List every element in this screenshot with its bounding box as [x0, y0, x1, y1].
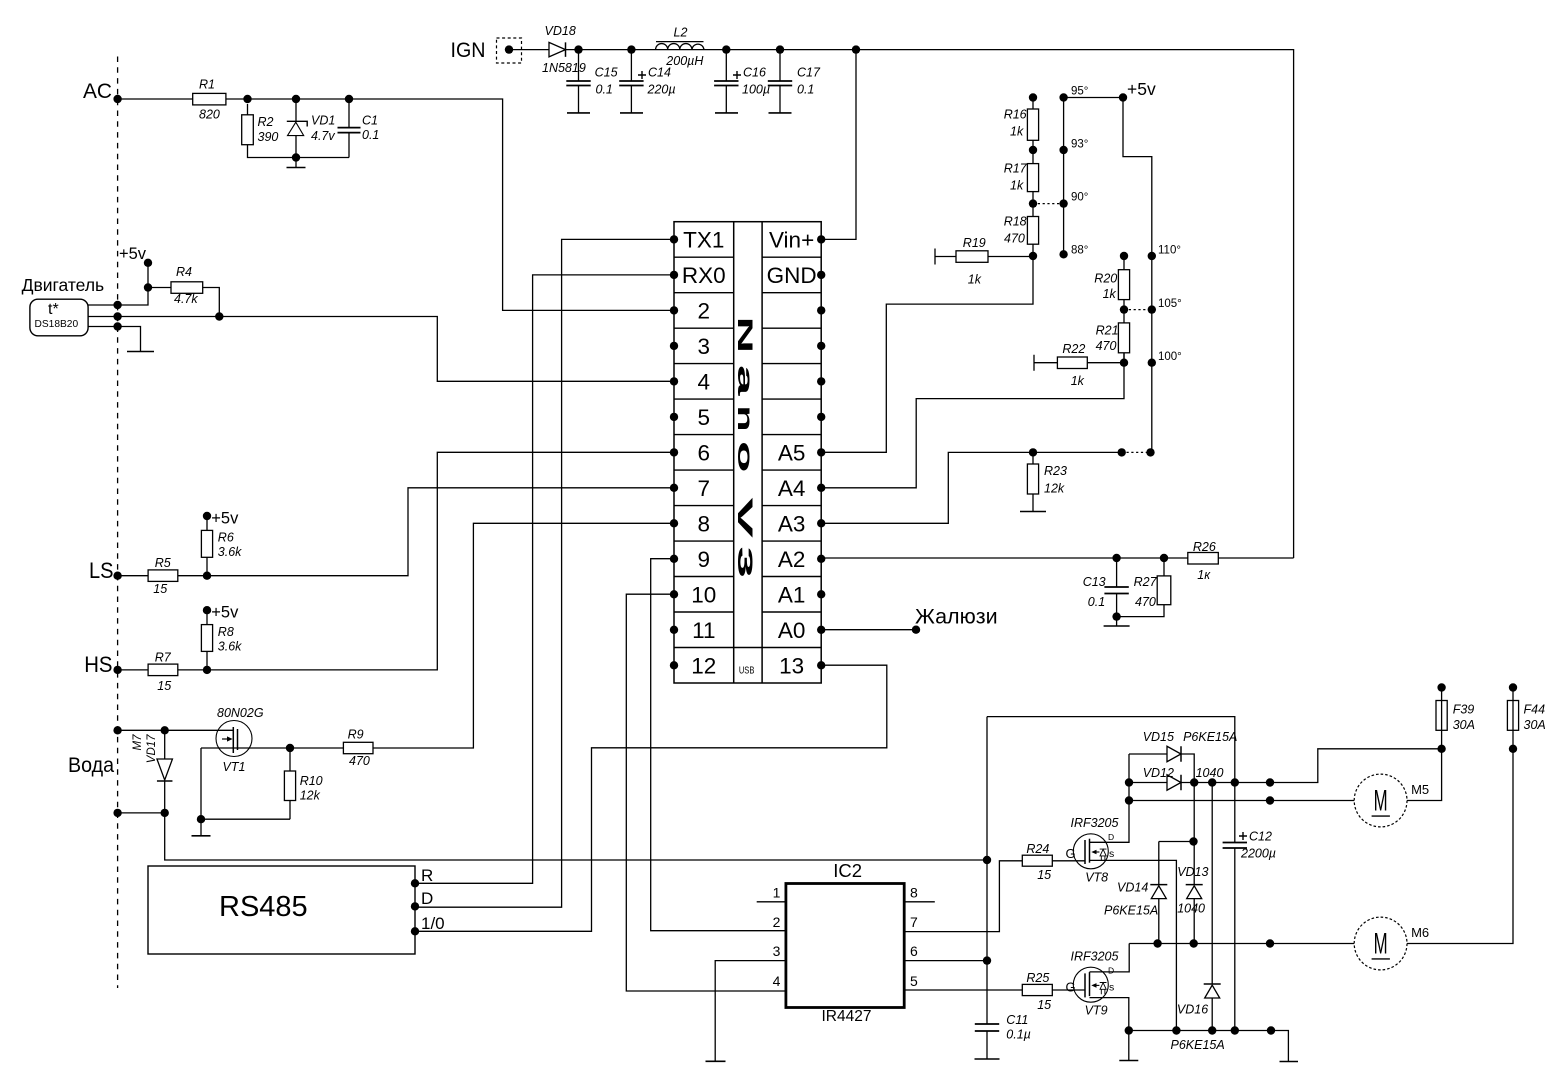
svg-text:R27: R27	[1134, 575, 1158, 589]
svg-text:1k: 1k	[1071, 374, 1085, 388]
svg-text:VT9: VT9	[1085, 1004, 1108, 1018]
svg-text:P6KE15A: P6KE15A	[1183, 730, 1237, 744]
svg-text:C17: C17	[797, 66, 821, 80]
svg-text:LS: LS	[89, 558, 114, 583]
wire TX1 to RS485 D	[415, 239, 674, 907]
wire Voda bottom	[118, 812, 165, 814]
resistor R21	[1118, 323, 1129, 353]
node 100	[1148, 359, 1156, 367]
svg-text:3.6k: 3.6k	[218, 545, 242, 559]
wire VD17 stem	[164, 730, 166, 813]
node R17 R18	[1029, 199, 1037, 207]
svg-text:A4: A4	[778, 476, 806, 501]
svg-text:Жалюзи: Жалюзи	[915, 605, 998, 629]
wire R24 to VT8 gate	[1052, 860, 1085, 862]
svg-text:470: 470	[1135, 595, 1156, 609]
svg-text:4.7v: 4.7v	[311, 129, 335, 143]
svg-text:GND: GND	[767, 263, 817, 288]
fuse F39	[1441, 688, 1443, 701]
svg-text:1040: 1040	[1177, 902, 1205, 916]
wire IC2 pin 3 to ground	[715, 961, 786, 1061]
svg-text:105°: 105°	[1158, 298, 1182, 310]
svg-text:A1: A1	[778, 582, 806, 607]
node R27 top	[1160, 554, 1168, 562]
svg-text:A0: A0	[778, 618, 806, 643]
wire AC line to Nano pin 2	[118, 99, 674, 310]
wire pin 13 to RS485 1/0	[415, 665, 887, 931]
svg-text:C1: C1	[362, 114, 378, 128]
svg-text:R9: R9	[348, 728, 364, 742]
svg-text:C15: C15	[595, 66, 618, 80]
capacitor C17	[768, 81, 792, 86]
svg-text:3.6k: 3.6k	[218, 640, 242, 654]
svg-text:G: G	[1066, 979, 1076, 994]
wire VD1 stem	[295, 99, 297, 158]
svg-text:AC: AC	[83, 79, 112, 103]
svg-text:M: M	[1374, 785, 1388, 818]
node 95	[1059, 93, 1067, 101]
wire A4 net	[821, 353, 1124, 488]
svg-text:R19: R19	[963, 236, 986, 250]
node bus sensor data	[113, 312, 121, 320]
wire VT9 drain	[1090, 944, 1130, 972]
capacitor C1	[338, 128, 361, 133]
svg-text:R20: R20	[1094, 272, 1117, 286]
wire IGN to VD18	[509, 49, 549, 51]
capacitor C14	[619, 81, 643, 86]
diode VD13	[1186, 884, 1203, 886]
capacitor C16	[714, 81, 738, 86]
wire Voda top to VT1 gate	[118, 729, 234, 731]
ground C13	[1116, 617, 1118, 626]
svg-text:R17: R17	[1004, 162, 1028, 176]
resistor R20	[1118, 270, 1129, 300]
resistor R23	[1027, 464, 1038, 494]
wire C12 stem	[1234, 783, 1236, 1031]
dashed bus line	[117, 57, 119, 989]
node vcc rail	[983, 856, 991, 864]
ground IC2 pin3	[706, 1060, 726, 1062]
node Zhaluzi	[912, 626, 920, 634]
resistor R1	[193, 93, 226, 105]
svg-text:9: 9	[698, 547, 711, 572]
svg-text:F44: F44	[1524, 703, 1546, 717]
svg-text:0.1: 0.1	[362, 128, 379, 142]
diode VD12	[1167, 775, 1181, 791]
svg-text:8: 8	[910, 885, 918, 901]
svg-text:1к: 1к	[1197, 568, 1211, 582]
capacitor C13	[1104, 587, 1128, 594]
node Voda bottom bus	[113, 809, 121, 817]
svg-text:R16: R16	[1004, 108, 1027, 122]
node RS485 IO	[411, 927, 419, 935]
svg-text:110°: 110°	[1158, 245, 1181, 257]
node C14 top	[627, 45, 635, 53]
resistor R19	[935, 249, 1033, 265]
svg-text:15: 15	[1037, 868, 1051, 882]
wire sensor gnd pin	[88, 327, 141, 352]
diode VD17	[157, 759, 173, 780]
svg-text:VD1: VD1	[311, 114, 335, 128]
node 88	[1059, 250, 1067, 258]
node R4 left	[144, 283, 152, 291]
node VD17 top	[161, 726, 169, 734]
svg-text:15: 15	[1037, 998, 1051, 1012]
resistor R22	[1034, 355, 1124, 371]
temperature sensor DS18B20	[30, 299, 88, 336]
svg-text:470: 470	[349, 754, 370, 768]
wire sensor data to Nano pin 4	[88, 317, 674, 382]
svg-text:IGN: IGN	[451, 38, 486, 62]
svg-text:R25: R25	[1026, 971, 1049, 985]
svg-text:2: 2	[698, 298, 711, 323]
node R16 top	[1029, 93, 1037, 101]
svg-text:R4: R4	[176, 265, 192, 279]
node C13 top	[1112, 554, 1120, 562]
node motor plus terminal	[1266, 778, 1274, 786]
node F39 bottom	[1437, 745, 1445, 753]
node R18 R19 A5	[1029, 252, 1037, 260]
node M6 terminal	[1266, 939, 1274, 947]
wire R2 bottom	[248, 104, 350, 158]
node 90	[1059, 199, 1067, 207]
svg-text:11: 11	[692, 618, 715, 643]
svg-text:RX0: RX0	[682, 263, 726, 288]
node VT8 drain top	[1125, 778, 1133, 786]
svg-text:13: 13	[779, 653, 804, 678]
node +5v R8	[203, 606, 211, 614]
wire Vin+ to rail	[821, 50, 856, 240]
wire R10 stem	[201, 748, 290, 819]
node R7 R8 junction	[203, 666, 211, 674]
svg-text:1/0: 1/0	[421, 914, 445, 933]
wire C17 stem	[779, 50, 781, 113]
ground VT1	[200, 819, 202, 836]
svg-text:10: 10	[691, 582, 716, 607]
svg-text:M5: M5	[1411, 782, 1429, 797]
node 110	[1148, 252, 1156, 260]
node VD1 top	[292, 95, 300, 103]
node C12 col top	[1231, 778, 1239, 786]
svg-text:2200µ: 2200µ	[1240, 847, 1276, 861]
transistor VT1 80N02G	[216, 721, 252, 757]
svg-text:3: 3	[773, 943, 781, 959]
node AC	[113, 95, 121, 103]
svg-text:s: s	[1109, 848, 1114, 860]
svg-text:5: 5	[910, 973, 918, 989]
svg-text:R21: R21	[1096, 324, 1119, 338]
wire 95 to +5v	[1064, 97, 1123, 99]
node +5v sensor	[144, 259, 152, 267]
node R5 R6 junction	[203, 572, 211, 580]
motor M5	[1354, 774, 1407, 827]
svg-text:5: 5	[698, 405, 711, 430]
svg-text:220µ: 220µ	[647, 83, 676, 97]
svg-text:R23: R23	[1044, 464, 1067, 478]
diode VD16	[1204, 983, 1221, 985]
svg-text:1040: 1040	[1196, 766, 1224, 780]
svg-text:+5v: +5v	[1127, 79, 1156, 99]
svg-text:4.7k: 4.7k	[174, 292, 198, 306]
svg-text:15: 15	[157, 679, 171, 693]
wire +5v to right ladder	[1123, 98, 1152, 453]
resistor R25	[1022, 984, 1052, 995]
svg-text:R: R	[421, 866, 433, 885]
node VD17 bottom	[161, 809, 169, 817]
wire VT1 source line R9	[201, 523, 674, 748]
resistor R16	[1027, 109, 1038, 140]
capacitor C11	[975, 1024, 999, 1031]
node R23 top	[1029, 448, 1037, 456]
wire R16 chain	[1032, 98, 1034, 217]
svg-text:R1: R1	[199, 78, 215, 92]
resistor R4	[148, 288, 219, 317]
ground VD1	[295, 158, 297, 168]
svg-text:R5: R5	[155, 556, 171, 570]
svg-text:R26: R26	[1193, 540, 1216, 554]
wire A3 net	[821, 452, 1121, 523]
svg-text:R8: R8	[218, 625, 234, 639]
wire Voda to gate-drive rail	[165, 813, 987, 860]
svg-text:1k: 1k	[1010, 179, 1024, 193]
resistor R5	[148, 570, 178, 582]
resistor R10	[284, 771, 295, 801]
svg-text:IR4427: IR4427	[822, 1008, 872, 1025]
svg-text:R2: R2	[258, 115, 274, 129]
svg-text:Двигатель: Двигатель	[22, 275, 105, 295]
node LS	[113, 572, 121, 580]
wire LS to Nano pin 7	[118, 488, 674, 576]
ground C15	[567, 112, 590, 114]
wire R25 to VT9 gate	[1052, 989, 1085, 991]
svg-text:390: 390	[258, 130, 279, 144]
wire HS to Nano pin 6	[118, 452, 674, 670]
node gnd VT8	[1172, 1026, 1180, 1034]
svg-text:Vin+: Vin+	[769, 227, 814, 252]
node VT1 gnd junction	[197, 815, 205, 823]
svg-text:VD15: VD15	[1143, 730, 1174, 744]
resistor R8	[201, 625, 212, 652]
svg-text:P6KE15A: P6KE15A	[1171, 1038, 1225, 1052]
svg-text:A5: A5	[778, 440, 806, 465]
node R20 R21	[1120, 305, 1128, 313]
wire A3 dotted link	[1122, 451, 1151, 453]
svg-text:RS485: RS485	[219, 891, 308, 923]
wire M6 row	[1129, 943, 1354, 945]
wire R23 stem	[1032, 452, 1034, 511]
svg-text:0.1µ: 0.1µ	[1006, 1028, 1031, 1042]
node gnd terminal	[1267, 1026, 1275, 1034]
svg-text:C16: C16	[743, 66, 766, 80]
wire M5 row	[1129, 800, 1354, 802]
capacitor C15	[566, 81, 590, 86]
svg-text:90°: 90°	[1071, 192, 1088, 204]
svg-text:HS: HS	[84, 652, 112, 677]
svg-text:1k: 1k	[968, 273, 982, 287]
wire pin 9 to IC2 pin 2	[651, 559, 786, 931]
svg-text:G: G	[1066, 846, 1076, 861]
resistor R6	[201, 530, 212, 557]
wire VT8 source to ground rail	[1090, 860, 1177, 1030]
ground C14	[620, 112, 643, 114]
module RS485	[148, 866, 415, 954]
svg-text:30A: 30A	[1453, 718, 1475, 732]
node VT8 drain M5	[1125, 796, 1133, 804]
node +5v top	[1119, 93, 1127, 101]
svg-text:4: 4	[773, 973, 781, 989]
wire VD13 column	[1193, 783, 1195, 944]
svg-text:IC2: IC2	[833, 860, 862, 881]
node IC2 pin6 vcc	[983, 956, 991, 964]
node 105	[1148, 305, 1156, 313]
module Nano V3	[674, 222, 821, 683]
resistor R17	[1027, 164, 1038, 192]
wire C15 stem	[578, 50, 580, 113]
svg-text:470: 470	[1004, 232, 1025, 246]
node C13 bottom	[1112, 612, 1120, 620]
svg-text:R18: R18	[1004, 215, 1027, 229]
wire pin 10 to IC2 pin 4	[626, 594, 786, 991]
svg-text:30A: 30A	[1524, 718, 1546, 732]
svg-text:470: 470	[1096, 339, 1117, 353]
wire VD12 row to F39	[1129, 749, 1442, 783]
svg-text:12: 12	[691, 653, 716, 678]
svg-text:M: M	[1374, 928, 1388, 961]
svg-text:7: 7	[910, 914, 918, 930]
wire vcc to motor supply	[987, 717, 1235, 783]
svg-text:12k: 12k	[300, 789, 321, 803]
wire vcc vertical	[986, 717, 988, 1059]
wire IC2 pin 1 stub	[757, 901, 786, 903]
svg-text:A3: A3	[778, 511, 806, 536]
node 93	[1059, 146, 1067, 154]
resistor R26	[1188, 553, 1219, 565]
svg-text:R22: R22	[1062, 342, 1085, 356]
svg-text:4: 4	[698, 369, 711, 394]
wire VD16 column	[1211, 783, 1213, 1031]
wire temp select column	[1063, 98, 1065, 255]
svg-text:0.1: 0.1	[1088, 595, 1105, 609]
wire VD15 row	[1129, 754, 1194, 783]
node +5v R6	[203, 512, 211, 520]
Nano pin dots	[670, 235, 678, 243]
ground C11	[975, 1058, 1000, 1060]
node R20 top	[1120, 252, 1128, 260]
svg-text:C12: C12	[1249, 830, 1272, 844]
wire C1 stem	[348, 99, 350, 158]
svg-text:820: 820	[199, 108, 220, 122]
svg-text:D: D	[1108, 965, 1114, 975]
svg-text:a: a	[733, 365, 756, 396]
wire RX0 to RS485 R	[415, 275, 674, 883]
svg-text:IRF3205: IRF3205	[1071, 816, 1119, 830]
node IGN terminal	[497, 38, 522, 63]
diode VD18	[549, 42, 566, 57]
wire R20 chain	[1123, 256, 1125, 363]
svg-text:t*: t*	[48, 301, 59, 318]
node C16 top	[722, 45, 730, 53]
svg-text:VD14: VD14	[1117, 881, 1148, 895]
ground VT9 bottom	[1128, 1031, 1130, 1061]
svg-text:R6: R6	[218, 531, 234, 545]
node Vin feed	[852, 45, 860, 53]
svg-text:F39: F39	[1453, 703, 1475, 717]
svg-text:M6: M6	[1411, 925, 1429, 940]
node RS485 D	[411, 902, 419, 910]
wire 90 dotted link	[1033, 203, 1064, 205]
svg-text:L2: L2	[674, 26, 688, 40]
node F44 top	[1509, 683, 1517, 691]
svg-text:1k: 1k	[1103, 287, 1117, 301]
svg-text:15: 15	[153, 582, 167, 596]
svg-text:o: o	[733, 441, 756, 473]
svg-text:8: 8	[698, 511, 711, 536]
node VD18 out	[574, 45, 582, 53]
wire 105 dotted link	[1124, 309, 1152, 311]
zener diode VD1	[287, 121, 307, 126]
svg-text:M7: M7	[132, 734, 144, 751]
svg-text:VD13: VD13	[1177, 865, 1208, 879]
wire VD14 branch	[1159, 842, 1194, 944]
transistor VT9 IRF3205	[1073, 967, 1108, 1002]
diode VD15	[1167, 746, 1181, 762]
node Voda top	[113, 726, 121, 734]
node R10 top	[286, 744, 294, 752]
node R4 right	[215, 312, 223, 320]
fuse F44	[1512, 688, 1514, 701]
node F44 mid	[1509, 745, 1517, 753]
resistor R7	[148, 664, 178, 676]
transistor VT8 IRF3205	[1073, 834, 1108, 869]
svg-text:R7: R7	[155, 651, 172, 665]
svg-text:6: 6	[910, 943, 918, 959]
wire IC2 pin 5 to R25	[904, 989, 1022, 991]
svg-text:V: V	[733, 497, 756, 538]
svg-text:n: n	[733, 405, 756, 431]
resistor R2	[242, 115, 254, 145]
node VD13 bottom	[1190, 939, 1198, 947]
svg-text:3: 3	[733, 546, 756, 578]
svg-text:80N02G: 80N02G	[217, 706, 264, 720]
ground R23	[1020, 511, 1046, 513]
wire C14 stem	[630, 50, 632, 113]
node RS485 R	[411, 879, 419, 887]
motor M6	[1354, 917, 1407, 970]
svg-text:7: 7	[698, 476, 711, 501]
node VD13 mid	[1189, 837, 1197, 845]
node M5 terminal	[1266, 796, 1274, 804]
resistor R18	[1027, 217, 1038, 245]
svg-text:C13: C13	[1083, 575, 1106, 589]
wire ground rail	[1129, 1031, 1289, 1062]
svg-text:200µH: 200µH	[665, 54, 704, 68]
svg-text:95°: 95°	[1071, 86, 1088, 98]
svg-text:D: D	[421, 889, 433, 908]
ground rail right	[1280, 1061, 1299, 1063]
node C1 top	[345, 95, 353, 103]
svg-text:R10: R10	[300, 774, 323, 788]
wire IC2 pin 7 to R24	[904, 861, 1022, 932]
svg-text:Вода: Вода	[68, 753, 114, 777]
svg-text:IRF3205: IRF3205	[1071, 949, 1119, 963]
node gnd VT9	[1125, 1026, 1133, 1034]
wire top +12V rail	[566, 50, 1294, 558]
svg-text:+5v: +5v	[211, 510, 239, 528]
capacitor C12	[1223, 843, 1247, 849]
svg-text:s: s	[1109, 981, 1114, 993]
node VD14 bottom	[1153, 939, 1161, 947]
svg-text:USB: USB	[739, 665, 755, 677]
